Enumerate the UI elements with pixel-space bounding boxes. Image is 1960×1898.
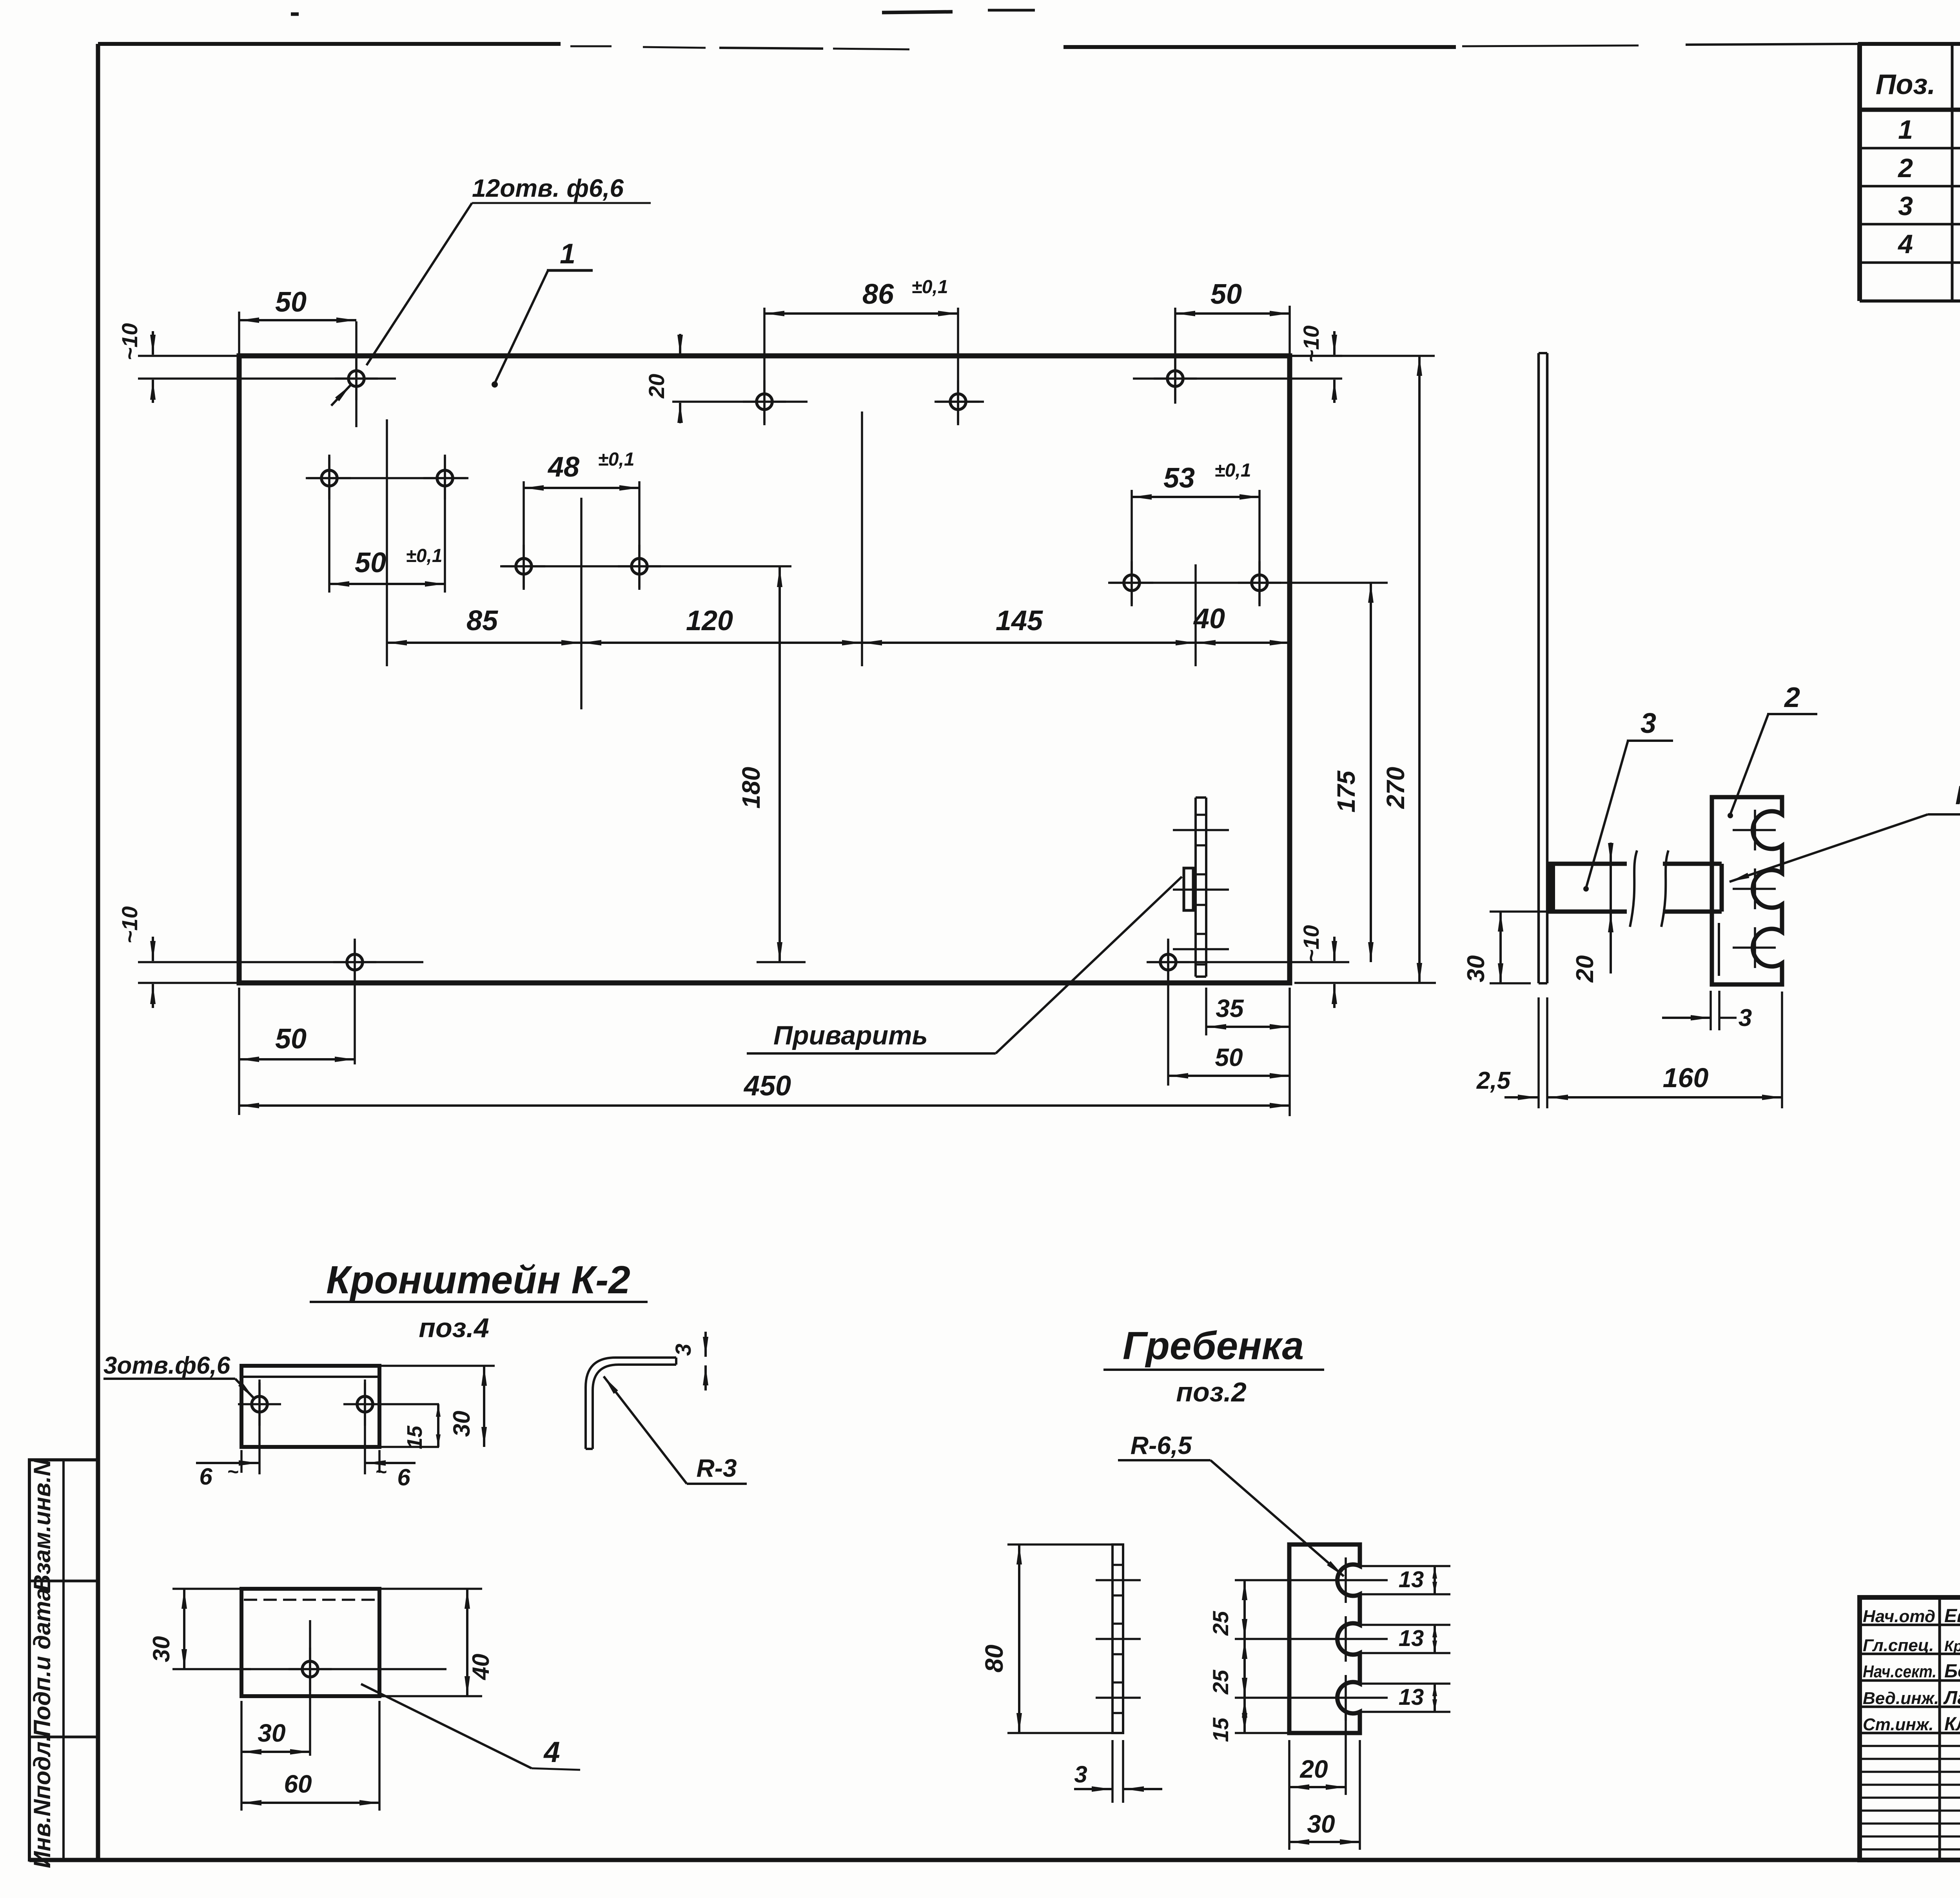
dim 35 bottom <box>1205 988 1207 1035</box>
dim ~10 top-left <box>138 355 239 357</box>
dim 3 comb wall <box>1710 991 1712 1030</box>
border frame bottom <box>29 1858 1960 1862</box>
hole 6.6 48pair-left <box>516 558 532 574</box>
K-2 bent profile view <box>586 1358 676 1449</box>
svg-text:40: 40 <box>1193 603 1225 634</box>
svg-text:поз.2: поз.2 <box>1176 1377 1247 1407</box>
dim 3 comb strip <box>1111 1740 1114 1803</box>
hole 6.6 50pair-right <box>437 470 453 486</box>
svg-text:30: 30 <box>1307 1810 1335 1838</box>
svg-text:Приварить: Приварить <box>773 1021 928 1050</box>
dims 13 x3 comb <box>1360 1565 1450 1567</box>
dim 20 side view <box>1610 864 1612 973</box>
hole 6.6 53pair-left <box>1124 575 1140 591</box>
title block verticals <box>1938 1597 1941 1860</box>
svg-text:~10: ~10 <box>117 906 142 944</box>
svg-text:~: ~ <box>375 1461 387 1483</box>
dim 175 vertical right <box>1370 583 1372 962</box>
dim 40 right K-2 bottom <box>379 1588 482 1590</box>
dim 50 top-left <box>238 312 240 356</box>
svg-text:450: 450 <box>743 1070 791 1102</box>
svg-text:85: 85 <box>466 605 498 636</box>
K-2 top view outline <box>241 1366 379 1447</box>
svg-text:Борщев: Борщев <box>1944 1661 1960 1682</box>
svg-text:145: 145 <box>996 605 1043 636</box>
svg-text:4: 4 <box>1897 229 1913 259</box>
svg-text:Гл.спец.: Гл.спец. <box>1863 1636 1934 1655</box>
hole 6.6 top-mid-left <box>757 394 772 410</box>
svg-text:50: 50 <box>1210 279 1242 310</box>
svg-text:Инв.Nподл.: Инв.Nподл. <box>29 1735 55 1868</box>
svg-text:6: 6 <box>397 1464 410 1490</box>
plate part1 outline 450x270 <box>239 356 1290 983</box>
svg-text:Крастошевский: Крастошевский <box>1944 1638 1960 1655</box>
svg-text:120: 120 <box>686 605 733 636</box>
svg-text:15: 15 <box>1208 1717 1233 1742</box>
dim 15 K-2 <box>379 1446 439 1448</box>
svg-text:35: 35 <box>1216 994 1244 1022</box>
svg-text:R-6,5: R-6,5 <box>1131 1431 1192 1459</box>
hole 6.6 top-mid-right <box>950 394 966 410</box>
hole 6.6 bottom-left <box>347 954 363 970</box>
svg-text:180: 180 <box>737 767 765 809</box>
svg-text:3: 3 <box>1074 1761 1087 1787</box>
svg-text:Клименко: Клименко <box>1944 1714 1960 1735</box>
svg-text:50: 50 <box>355 547 386 578</box>
svg-text:~: ~ <box>227 1461 238 1483</box>
svg-text:25: 25 <box>1208 1670 1233 1695</box>
weld seam at plate-bar joint <box>1547 865 1555 911</box>
svg-text:R-3: R-3 <box>696 1454 737 1482</box>
svg-text:2,5: 2,5 <box>1476 1067 1511 1094</box>
dim 48 +-0,1 <box>524 487 639 489</box>
svg-text:4: 4 <box>543 1736 560 1768</box>
hole 6.6 top-right <box>1167 371 1183 386</box>
dim 6 right K-2 <box>378 1450 381 1473</box>
hole centerline extensions <box>138 377 396 380</box>
svg-text:25: 25 <box>1208 1611 1233 1636</box>
svg-text:Гребенка: Гребенка <box>1123 1324 1304 1368</box>
svg-text:Ст.инж.: Ст.инж. <box>1863 1715 1934 1734</box>
parts table grid <box>1857 44 1862 301</box>
svg-text:1: 1 <box>1898 115 1913 145</box>
svg-text:~10: ~10 <box>1299 925 1323 963</box>
leader label 4 <box>361 1684 532 1768</box>
svg-text:±0,1: ±0,1 <box>406 546 442 566</box>
dim 20 comb bottom <box>1345 1712 1347 1795</box>
K-2 hole right <box>357 1396 373 1412</box>
svg-text:поз.4: поз.4 <box>419 1312 489 1343</box>
dim 50 +-0,1 <box>329 583 445 585</box>
svg-text:15: 15 <box>403 1425 426 1449</box>
svg-text:3отв.ф6,6: 3отв.ф6,6 <box>103 1352 230 1379</box>
dim 86 +-0,1 top <box>764 312 958 315</box>
svg-text:175: 175 <box>1332 770 1360 812</box>
dim 30 bottom K-2 <box>240 1701 243 1811</box>
comb profile detail <box>1289 1545 1360 1733</box>
side view comb part2 front <box>1712 797 1782 984</box>
dim 450 bottom <box>239 1104 1290 1107</box>
svg-text:30: 30 <box>148 1636 174 1662</box>
dim 270 vertical right <box>1290 355 1435 357</box>
dim 6 left K-2 <box>240 1450 243 1473</box>
svg-text:Нач.сект.: Нач.сект. <box>1863 1662 1936 1681</box>
svg-text:~10: ~10 <box>117 323 142 361</box>
comb notch centerlines detail <box>1235 1579 1388 1581</box>
dim 60 bottom K-2 <box>378 1701 381 1811</box>
svg-text:30: 30 <box>448 1411 475 1437</box>
side view bracket part3 bar <box>1547 862 1722 866</box>
svg-text:Вед.инж.: Вед.инж. <box>1863 1689 1939 1708</box>
svg-text:3: 3 <box>1739 1004 1752 1031</box>
dim 30 side view <box>1490 910 1547 913</box>
svg-text:50: 50 <box>1215 1043 1243 1071</box>
svg-text:20: 20 <box>1572 955 1599 983</box>
svg-text:3: 3 <box>671 1343 695 1356</box>
datum centerlines <box>386 419 388 666</box>
svg-text:13: 13 <box>1399 1567 1424 1592</box>
hole 6.6 48pair-right <box>632 558 647 574</box>
svg-text:Кронштейн К-2: Кронштейн К-2 <box>326 1258 630 1302</box>
dim ~10 bottom-right <box>1333 937 1336 961</box>
K-2 hole left <box>252 1396 267 1412</box>
scan marks top <box>882 12 953 13</box>
comb wall line below bar <box>1711 912 1713 984</box>
dim ~10 top-right <box>1290 355 1342 357</box>
svg-text:Подп.и дата: Подп.и дата <box>29 1588 55 1737</box>
svg-text:60: 60 <box>284 1770 312 1798</box>
K-2 bottom view outline <box>241 1589 379 1696</box>
K-2 bottom view hole <box>302 1661 318 1677</box>
comb side strip <box>1112 1545 1123 1733</box>
svg-text:2: 2 <box>1897 153 1913 183</box>
dim 30 left K-2 bottom <box>172 1588 241 1590</box>
svg-text:20: 20 <box>1299 1755 1328 1783</box>
svg-text:12отв. ф6,6: 12отв. ф6,6 <box>472 174 624 202</box>
svg-text:40: 40 <box>468 1654 494 1680</box>
welded bracket part3 edge view <box>1184 868 1193 910</box>
svg-text:50: 50 <box>275 286 307 318</box>
dim 160 side view <box>1781 992 1783 1108</box>
svg-text:53: 53 <box>1163 462 1195 494</box>
border frame left <box>96 44 100 1860</box>
svg-text:50: 50 <box>275 1023 307 1055</box>
svg-text:160: 160 <box>1663 1062 1709 1093</box>
svg-text:6: 6 <box>199 1463 212 1490</box>
svg-text:30: 30 <box>258 1719 285 1747</box>
svg-text:20: 20 <box>644 374 669 399</box>
svg-text:Евтушенко: Евтушенко <box>1944 1606 1960 1626</box>
svg-text:80: 80 <box>980 1644 1008 1672</box>
break lines on bar <box>1630 850 1637 927</box>
hole 6.6 50pair-left <box>321 470 337 486</box>
dim 180 vertical <box>779 567 781 962</box>
dim 20 top <box>679 334 681 355</box>
hole 6.6 53pair-right <box>1252 575 1267 591</box>
welded comb part2 edge view <box>1194 798 1197 977</box>
svg-text:Поз.: Поз. <box>1876 69 1936 100</box>
title block outer <box>1860 1597 1960 1860</box>
dim 30 K-2 top view <box>379 1365 495 1367</box>
dim 50 bottom-right <box>1168 1075 1290 1077</box>
dim 50 bottom-left <box>238 988 240 1115</box>
svg-text:48: 48 <box>547 451 579 483</box>
svg-text:2: 2 <box>1784 682 1800 713</box>
svg-text:±0,1: ±0,1 <box>1214 460 1251 481</box>
dim ~10 bottom-left <box>138 982 239 984</box>
svg-text:~10: ~10 <box>1299 326 1323 363</box>
svg-text:30: 30 <box>1463 955 1490 983</box>
svg-text:Нач.отд: Нач.отд <box>1863 1607 1935 1626</box>
dim 3 profile thickness <box>704 1332 707 1357</box>
svg-text:13: 13 <box>1399 1684 1424 1710</box>
side view plate part1 strip <box>1537 353 1540 983</box>
svg-text:Лазаренко: Лазаренко <box>1943 1688 1960 1708</box>
dim 80 comb strip <box>1007 1543 1112 1546</box>
left stamp boxes <box>29 1460 98 1860</box>
hole 6.6 top-left <box>348 371 364 386</box>
dim 2,5 plate thickness <box>1537 997 1540 1108</box>
comb notch centerlines side view <box>1733 829 1776 831</box>
dims 25 25 15 comb <box>1235 1732 1289 1734</box>
svg-text:Взам.инв.N: Взам.инв.N <box>29 1459 55 1592</box>
svg-text:1: 1 <box>560 238 575 270</box>
svg-text:270: 270 <box>1381 767 1410 809</box>
svg-text:Приварить: Приварить <box>1955 780 1960 810</box>
dim 30 comb bottom <box>1288 1740 1290 1850</box>
dim chain 85 120 145 40 <box>387 642 581 644</box>
signature rows <box>1860 1624 1960 1626</box>
dim 53 +-0,1 <box>1132 496 1259 498</box>
svg-text:±0,1: ±0,1 <box>598 449 634 470</box>
svg-text:13: 13 <box>1399 1626 1424 1651</box>
svg-text:86: 86 <box>862 279 894 310</box>
svg-text:±0,1: ±0,1 <box>911 277 948 297</box>
border frame top <box>98 42 561 46</box>
svg-text:3: 3 <box>1641 708 1656 739</box>
hole 6.6 bottom-right <box>1160 954 1176 970</box>
dim 50 top-right <box>1289 306 1291 356</box>
svg-text:3: 3 <box>1898 191 1913 221</box>
